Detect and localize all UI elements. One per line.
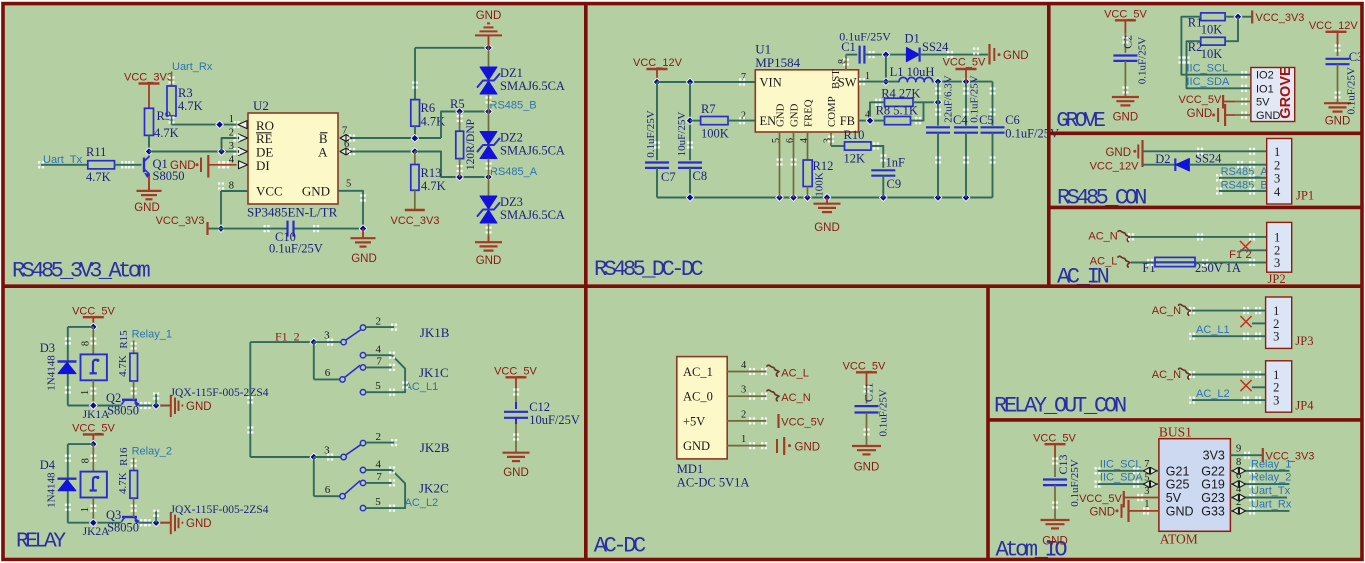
- svg-text:AC_L: AC_L: [1090, 256, 1118, 268]
- svg-text:8: 8: [1236, 457, 1241, 468]
- svg-text:COMP: COMP: [826, 96, 838, 127]
- svg-text:VCC_5V: VCC_5V: [1104, 9, 1147, 21]
- svg-text:C9: C9: [887, 177, 902, 191]
- svg-text:GND: GND: [814, 222, 840, 234]
- svg-text:FB: FB: [840, 114, 855, 128]
- svg-text:Relay_2: Relay_2: [132, 446, 172, 458]
- svg-text:JK1A: JK1A: [83, 409, 111, 421]
- svg-text:8: 8: [80, 458, 91, 463]
- svg-text:RS485_DC-DC: RS485_DC-DC: [594, 257, 704, 282]
- svg-text:BST: BST: [830, 69, 842, 89]
- svg-text:VCC_5V: VCC_5V: [72, 423, 115, 435]
- svg-text:7: 7: [376, 471, 382, 483]
- svg-text:GND: GND: [351, 253, 377, 265]
- svg-text:R5: R5: [450, 97, 465, 111]
- svg-text:GND: GND: [1187, 108, 1213, 120]
- svg-text:0.1uF/25V: 0.1uF/25V: [1345, 67, 1357, 114]
- svg-text:1: 1: [741, 434, 746, 445]
- svg-text:AC_1: AC_1: [683, 365, 713, 379]
- svg-text:8: 8: [229, 181, 234, 192]
- svg-text:VCC_5V: VCC_5V: [943, 57, 986, 69]
- svg-text:R7: R7: [701, 102, 716, 116]
- svg-text:AC_L2: AC_L2: [405, 497, 439, 509]
- svg-text:3: 3: [229, 141, 234, 152]
- svg-text:GND: GND: [1113, 112, 1139, 124]
- svg-text:7: 7: [376, 356, 382, 368]
- svg-text:R11: R11: [86, 145, 106, 159]
- svg-text:GND: GND: [476, 10, 502, 22]
- svg-text:1: 1: [865, 71, 870, 82]
- svg-text:2: 2: [741, 409, 746, 420]
- svg-text:0.1uF/25V: 0.1uF/25V: [645, 110, 657, 157]
- svg-text:DZ1: DZ1: [500, 66, 523, 80]
- svg-text:JK1C: JK1C: [419, 365, 449, 380]
- svg-text:2: 2: [376, 431, 382, 443]
- svg-text:AC_L2: AC_L2: [1196, 388, 1230, 400]
- svg-text:3: 3: [1274, 172, 1280, 186]
- svg-text:R10: R10: [844, 128, 865, 142]
- svg-text:C8: C8: [693, 169, 708, 183]
- svg-text:JP2: JP2: [1268, 272, 1286, 286]
- svg-text:5: 5: [375, 380, 381, 392]
- svg-text:VCC_5V: VCC_5V: [72, 306, 115, 318]
- svg-text:VCC_5V: VCC_5V: [1179, 94, 1222, 106]
- svg-text:D1: D1: [905, 32, 920, 46]
- svg-text:7: 7: [741, 72, 746, 83]
- svg-text:SP3485EN-L/TR: SP3485EN-L/TR: [247, 205, 338, 220]
- svg-text:Uart_Rx: Uart_Rx: [172, 61, 213, 73]
- svg-text:VCC: VCC: [256, 184, 283, 199]
- svg-text:VCC_5V: VCC_5V: [781, 417, 824, 429]
- svg-text:10uF/25V: 10uF/25V: [529, 413, 580, 427]
- svg-text:3: 3: [1273, 394, 1279, 408]
- svg-text:5V: 5V: [1256, 97, 1270, 109]
- svg-text:10K: 10K: [1201, 47, 1223, 61]
- svg-text:1: 1: [1274, 230, 1280, 244]
- svg-text:D4: D4: [40, 458, 56, 472]
- svg-text:G19: G19: [1201, 478, 1225, 492]
- svg-text:6: 6: [325, 484, 331, 496]
- svg-text:IIC_SCL: IIC_SCL: [1187, 63, 1229, 75]
- svg-text:DZ2: DZ2: [500, 131, 523, 145]
- svg-text:5: 5: [375, 496, 381, 508]
- svg-text:FREQ: FREQ: [803, 99, 815, 127]
- svg-text:IO1: IO1: [1256, 83, 1274, 95]
- svg-text:RS485_B: RS485_B: [490, 100, 537, 112]
- svg-text:GND: GND: [302, 184, 330, 199]
- svg-text:9: 9: [1236, 443, 1241, 454]
- svg-text:GND: GND: [1003, 50, 1029, 62]
- svg-text:JP1: JP1: [1296, 189, 1314, 203]
- svg-text:SS24: SS24: [922, 40, 949, 54]
- svg-text:JP4: JP4: [1295, 399, 1314, 413]
- svg-text:C7: C7: [661, 170, 676, 184]
- svg-text:AC_N: AC_N: [1088, 231, 1117, 243]
- svg-text:4.7K: 4.7K: [178, 99, 203, 113]
- svg-text:SMAJ6.5CA: SMAJ6.5CA: [500, 144, 565, 158]
- svg-text:AC_N: AC_N: [1152, 369, 1181, 381]
- svg-text:GND: GND: [683, 439, 710, 453]
- svg-text:0.1uF/25V: 0.1uF/25V: [1137, 37, 1149, 84]
- svg-text:C12: C12: [529, 400, 550, 414]
- svg-text:GND: GND: [789, 103, 801, 127]
- svg-text:1: 1: [80, 507, 91, 512]
- svg-text:L1 10uH: L1 10uH: [890, 65, 935, 79]
- svg-text:4.7K: 4.7K: [86, 170, 111, 184]
- svg-text:A: A: [318, 145, 328, 160]
- svg-text:VCC_5V: VCC_5V: [843, 361, 886, 373]
- svg-text:VIN: VIN: [760, 76, 782, 90]
- svg-text:AC_L1: AC_L1: [1196, 324, 1230, 336]
- svg-text:Uart_Tx: Uart_Tx: [1251, 485, 1291, 497]
- svg-text:3: 3: [1273, 330, 1279, 344]
- svg-text:RS485_A: RS485_A: [1221, 166, 1269, 178]
- svg-text:RS485_3V3_Atom: RS485_3V3_Atom: [12, 259, 150, 284]
- svg-text:3: 3: [741, 385, 746, 396]
- svg-text:8: 8: [80, 341, 91, 346]
- svg-text:JP3: JP3: [1295, 334, 1313, 348]
- svg-text:2: 2: [741, 111, 746, 122]
- svg-text:BUS1: BUS1: [1159, 425, 1192, 440]
- svg-text:GND: GND: [1105, 147, 1131, 159]
- svg-text:VCC_5V: VCC_5V: [494, 366, 537, 378]
- svg-text:R13: R13: [421, 166, 442, 180]
- svg-text:3V3: 3V3: [1203, 449, 1225, 463]
- svg-text:Uart_Rx: Uart_Rx: [1251, 498, 1292, 510]
- svg-text:GND: GND: [134, 202, 160, 214]
- svg-text:GND: GND: [476, 255, 502, 267]
- svg-text:JK2A: JK2A: [83, 526, 111, 538]
- svg-text:VCC_3V3: VCC_3V3: [124, 72, 173, 84]
- svg-text:VCC_12V: VCC_12V: [1309, 20, 1359, 32]
- svg-text:GND: GND: [1166, 504, 1194, 518]
- svg-text:AC_L: AC_L: [781, 368, 809, 380]
- svg-text:MP1584: MP1584: [755, 55, 800, 70]
- svg-text:10K: 10K: [1201, 23, 1223, 37]
- svg-text:C6: C6: [1005, 113, 1020, 127]
- svg-text:1N4148: 1N4148: [45, 472, 57, 508]
- svg-text:R6: R6: [421, 101, 436, 115]
- svg-text:VCC_3V3: VCC_3V3: [1256, 12, 1305, 24]
- svg-text:GND: GND: [775, 103, 787, 127]
- svg-text:5: 5: [346, 179, 351, 190]
- svg-text:2: 2: [376, 316, 382, 328]
- svg-text:2: 2: [1274, 159, 1280, 173]
- svg-text:VCC_12V: VCC_12V: [1090, 161, 1140, 173]
- svg-text:6: 6: [325, 367, 331, 379]
- svg-text:R8 5.1K: R8 5.1K: [876, 104, 918, 118]
- svg-text:+5V: +5V: [683, 414, 705, 428]
- svg-text:SMAJ6.5CA: SMAJ6.5CA: [500, 208, 565, 222]
- svg-text:0.1uF/25V: 0.1uF/25V: [877, 389, 889, 436]
- svg-text:4: 4: [376, 344, 382, 356]
- svg-text:Relay_2: Relay_2: [1251, 472, 1291, 484]
- svg-text:10uF/25V: 10uF/25V: [676, 112, 688, 157]
- svg-text:JK1B: JK1B: [420, 325, 450, 340]
- svg-text:GND: GND: [854, 462, 880, 474]
- svg-text:VCC_12V: VCC_12V: [633, 57, 683, 69]
- svg-text:4: 4: [741, 360, 747, 371]
- svg-text:4: 4: [376, 458, 382, 470]
- svg-text:0.1uF/25V: 0.1uF/25V: [269, 242, 323, 256]
- svg-text:GND: GND: [1042, 536, 1068, 548]
- svg-text:G23: G23: [1201, 491, 1225, 505]
- svg-text:250V 1A: 250V 1A: [1195, 261, 1241, 275]
- svg-text:C1: C1: [841, 40, 856, 54]
- svg-text:RS485_A: RS485_A: [490, 166, 538, 178]
- svg-text:GROVE: GROVE: [1056, 110, 1105, 133]
- svg-text:GND: GND: [170, 160, 196, 172]
- svg-text:D3: D3: [40, 341, 55, 355]
- svg-text:1N4148: 1N4148: [45, 355, 57, 391]
- svg-text:R16: R16: [118, 447, 130, 466]
- svg-text:VCC_3V3: VCC_3V3: [156, 215, 205, 227]
- svg-text:R15: R15: [118, 330, 130, 349]
- svg-text:S8050: S8050: [107, 521, 139, 535]
- svg-text:3: 3: [1274, 256, 1280, 270]
- svg-text:C4: C4: [953, 113, 968, 127]
- svg-text:GND: GND: [1325, 116, 1351, 128]
- svg-text:AC-DC 5V1A: AC-DC 5V1A: [677, 476, 750, 490]
- svg-text:GND: GND: [1089, 507, 1115, 519]
- svg-text:G33: G33: [1201, 504, 1225, 518]
- svg-text:2: 2: [229, 128, 234, 139]
- svg-text:1: 1: [229, 114, 234, 125]
- svg-text:RELAY_OUT_CON: RELAY_OUT_CON: [994, 394, 1126, 419]
- svg-text:5V: 5V: [1166, 491, 1182, 505]
- svg-text:4.7K: 4.7K: [117, 355, 129, 377]
- svg-text:JK2C: JK2C: [419, 480, 449, 495]
- svg-text:100K: 100K: [701, 127, 729, 141]
- svg-text:4: 4: [229, 155, 235, 166]
- svg-text:1: 1: [1274, 145, 1280, 159]
- svg-text:IIC_SDA: IIC_SDA: [1187, 76, 1230, 88]
- svg-text:GROVE: GROVE: [1278, 66, 1294, 119]
- svg-text:4.7K: 4.7K: [117, 472, 129, 494]
- svg-text:GND: GND: [1256, 110, 1281, 122]
- svg-text:4.7K: 4.7K: [421, 179, 446, 193]
- svg-text:AC_N: AC_N: [781, 392, 810, 404]
- svg-text:1: 1: [80, 390, 91, 395]
- svg-text:SMAJ6.5CA: SMAJ6.5CA: [500, 79, 565, 93]
- svg-text:S8050: S8050: [107, 404, 139, 418]
- svg-text:G25: G25: [1166, 478, 1190, 492]
- svg-text:IO2: IO2: [1256, 70, 1274, 82]
- svg-text:Relay_1: Relay_1: [132, 329, 172, 341]
- svg-text:AC_0: AC_0: [683, 390, 713, 404]
- svg-text:RS485_B: RS485_B: [1221, 180, 1268, 192]
- svg-text:DZ3: DZ3: [500, 195, 523, 209]
- svg-text:JK2B: JK2B: [420, 440, 450, 455]
- svg-text:GND: GND: [186, 401, 212, 413]
- svg-text:JQX-115F-005-2ZS4: JQX-115F-005-2ZS4: [171, 504, 269, 516]
- svg-text:VCC_5V: VCC_5V: [1079, 493, 1122, 505]
- svg-text:VCC_3V3: VCC_3V3: [391, 215, 440, 227]
- svg-text:AC-DC: AC-DC: [594, 534, 646, 559]
- svg-text:D2: D2: [1155, 152, 1170, 166]
- svg-text:GND: GND: [186, 518, 212, 530]
- svg-text:RELAY: RELAY: [16, 530, 66, 554]
- svg-text:U2: U2: [253, 98, 269, 113]
- svg-text:JQX-115F-005-2ZS4: JQX-115F-005-2ZS4: [171, 387, 269, 399]
- svg-text:DI: DI: [256, 158, 270, 173]
- svg-text:120R/DNP: 120R/DNP: [465, 119, 477, 170]
- svg-text:R3: R3: [178, 86, 193, 100]
- svg-text:1nF: 1nF: [886, 156, 906, 170]
- svg-text:100K: 100K: [813, 172, 825, 197]
- svg-text:VCC_5V: VCC_5V: [1033, 433, 1076, 445]
- svg-text:ATOM: ATOM: [1160, 532, 1198, 547]
- svg-text:4.7K: 4.7K: [154, 126, 179, 140]
- svg-text:GND: GND: [503, 467, 529, 479]
- svg-text:G21: G21: [1166, 464, 1190, 478]
- svg-text:12K: 12K: [844, 152, 866, 166]
- svg-text:F1: F1: [1142, 261, 1155, 275]
- svg-text:MD1: MD1: [677, 462, 703, 476]
- svg-text:Relay_1: Relay_1: [1251, 458, 1291, 470]
- svg-text:AC_N: AC_N: [1152, 305, 1181, 317]
- svg-text:GND: GND: [795, 442, 821, 454]
- svg-text:4: 4: [1274, 185, 1281, 199]
- svg-text:AC_L1: AC_L1: [405, 381, 439, 393]
- svg-text:G22: G22: [1201, 464, 1225, 478]
- svg-text:R12: R12: [813, 159, 834, 173]
